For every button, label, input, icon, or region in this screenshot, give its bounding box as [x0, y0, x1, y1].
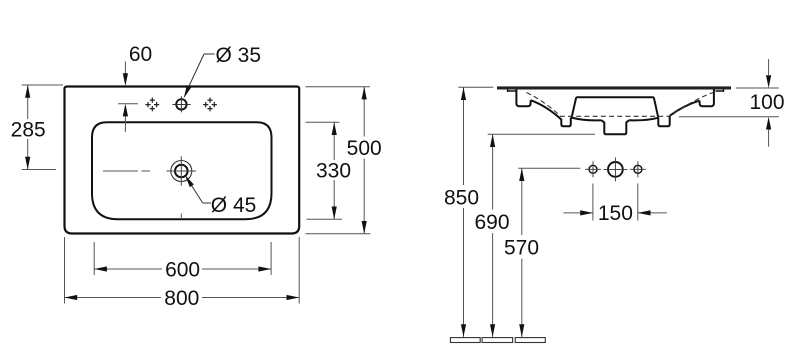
outer basin rectangle: [65, 87, 300, 234]
right lip: [716, 90, 724, 93]
dim 600: [94, 242, 271, 275]
right hanger bracket: [700, 90, 714, 107]
svg-text:150: 150: [598, 202, 633, 225]
dim 500: [306, 87, 371, 234]
inner basin rounded rect: [92, 122, 272, 219]
dim 690: [488, 134, 595, 337]
dim 285: [22, 85, 63, 170]
central recess top: [576, 96, 654, 98]
basin floor left: [572, 118, 602, 121]
holes row: left hole: [585, 161, 601, 177]
svg-text:500: 500: [347, 137, 382, 160]
drain boss: [602, 120, 630, 134]
svg-text:Ø 35: Ø 35: [216, 44, 262, 67]
drain centerline vertical dash at basin bottom: [180, 214, 182, 220]
dim Ø45 leader: [190, 183, 211, 203]
svg-text:570: 570: [504, 237, 539, 260]
dim 150: [564, 184, 667, 221]
dim 850: [458, 87, 493, 337]
svg-text:Ø 45: Ø 45: [211, 194, 257, 217]
dim 330: [306, 122, 343, 219]
svg-text:285: 285: [11, 118, 46, 141]
svg-text:690: 690: [474, 211, 509, 234]
dim 570: [518, 168, 580, 337]
right tab: [658, 116, 669, 127]
svg-text:60: 60: [129, 43, 152, 66]
faucet hole left (4-plus diamond mark): [145, 98, 159, 112]
outer underside curve right: [670, 101, 700, 116]
floor tiles: [450, 338, 545, 343]
dim Ø35 leader: [186, 54, 215, 94]
faucet hole right (4-plus diamond mark): [203, 98, 217, 112]
left lip: [508, 90, 517, 93]
outer underside curve left: [531, 100, 562, 119]
holes row: right hole: [630, 161, 646, 177]
svg-text:600: 600: [165, 259, 200, 282]
drain centerline horizontal: [103, 170, 150, 172]
faucet hole middle Ø35: [172, 96, 190, 112]
countertop slab: [497, 86, 731, 89]
left hanger bracket: [516, 90, 530, 107]
basin floor right: [629, 118, 658, 121]
left tab: [561, 118, 571, 127]
dim 100: [679, 59, 779, 147]
recess right wall: [654, 97, 659, 118]
dim 800: [65, 237, 300, 304]
svg-text:800: 800: [164, 287, 199, 310]
holes row: center hole: [603, 157, 627, 181]
dim 60: [118, 62, 138, 133]
drain Ø45: [167, 156, 197, 185]
svg-text:850: 850: [444, 187, 479, 210]
svg-text:100: 100: [749, 91, 784, 114]
svg-text:330: 330: [316, 160, 351, 183]
hidden interior dashed line: [527, 93, 714, 117]
recess left wall: [572, 97, 577, 117]
